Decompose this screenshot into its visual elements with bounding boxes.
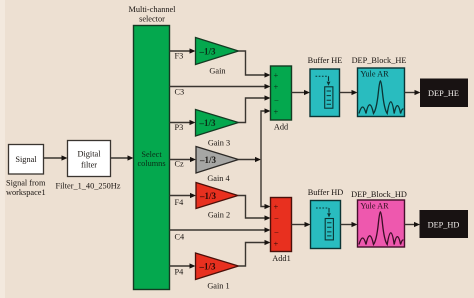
wire DEP_Block_HD to DEP_HD: [405, 222, 421, 227]
wire Gain 4 output to node A: [239, 157, 262, 162]
svg-text:P3: P3: [175, 123, 184, 132]
svg-text:–1/3: –1/3: [199, 262, 217, 272]
svg-text:DEP_HD: DEP_HD: [428, 220, 460, 229]
svg-text:C3: C3: [175, 88, 185, 97]
wire F4: [170, 193, 197, 198]
svg-text:Yule AR: Yule AR: [360, 202, 389, 211]
wire P4: [170, 263, 196, 268]
svg-text:–1/3: –1/3: [199, 191, 217, 201]
left edge light strip: [0, 0, 5, 298]
svg-text:Buffer HE: Buffer HE: [308, 56, 343, 65]
svg-text:Gain 4: Gain 4: [207, 174, 230, 183]
wire Cz: [170, 157, 197, 162]
svg-text:–1/3: –1/3: [199, 118, 217, 128]
svg-text:−: −: [274, 214, 279, 224]
block Digital filter: [68, 141, 111, 177]
gain G2 Gain 2 (F4): [196, 183, 238, 220]
svg-text:Yule AR: Yule AR: [360, 70, 389, 79]
svg-text:DEP_Block_HE: DEP_Block_HE: [352, 56, 407, 65]
svg-text:Buffer HD: Buffer HD: [308, 188, 344, 197]
block DEP_HD (output): [420, 211, 468, 238]
svg-text:+: +: [274, 70, 279, 80]
wire Digital filter to selector: [111, 155, 134, 160]
svg-text:DEP_HE: DEP_HE: [428, 89, 459, 98]
svg-text:DEP_Block_HD: DEP_Block_HD: [351, 190, 407, 199]
svg-text:−: −: [274, 227, 279, 237]
wire Buffer HD to DEP_Block_HD: [341, 222, 358, 227]
gain G4 Gain 4 (Cz): [196, 147, 239, 184]
svg-text:Gain: Gain: [209, 67, 226, 76]
wire Buffer HE to DEP_Block_HE: [340, 90, 358, 95]
svg-text:C4: C4: [175, 233, 186, 242]
svg-text:F4: F4: [175, 198, 185, 207]
gain G3 Gain 3 (P3): [196, 110, 239, 148]
svg-text:workspace1: workspace1: [6, 188, 46, 197]
svg-text:Add: Add: [274, 123, 289, 132]
svg-text:+: +: [274, 202, 279, 212]
wire C3: [170, 84, 271, 89]
block Buffer HE: [310, 69, 340, 117]
block DEP_HE (output): [421, 79, 468, 107]
wire node A to Add in4: [261, 108, 271, 159]
block U1 Multi-channel selector: [134, 26, 170, 290]
svg-text:F3: F3: [175, 52, 184, 61]
wire F3: [170, 48, 196, 53]
svg-text:Gain 3: Gain 3: [208, 139, 230, 148]
svg-text:Filter_1_40_250Hz: Filter_1_40_250Hz: [56, 182, 121, 191]
block DEP_Block_HD (Yule AR): [358, 200, 405, 247]
svg-text:−: −: [274, 96, 279, 106]
svg-text:Cz: Cz: [175, 160, 185, 169]
wire Add1 to Buffer HD: [292, 222, 311, 227]
wire node A to Add1 in1: [261, 160, 271, 210]
gain G1 Gain 1 (P4): [196, 253, 239, 291]
svg-text:selector: selector: [139, 15, 165, 24]
caption Multi-channel selector: [128, 5, 176, 24]
block Buffer HD: [311, 201, 341, 249]
block Add1 (sum): [271, 198, 292, 264]
svg-text:filter: filter: [81, 161, 97, 170]
svg-text:Signal: Signal: [15, 155, 37, 164]
wire Gain 2 output to Add1 in2: [238, 196, 271, 221]
gain G Gain (F3): [196, 38, 239, 76]
wire C4: [170, 227, 271, 232]
svg-text:Select: Select: [141, 150, 162, 159]
block DEP_Block_HE (Yule AR): [358, 68, 405, 117]
svg-text:Add1: Add1: [272, 254, 290, 263]
wire Gain 1 output to Add1 in4: [239, 240, 271, 266]
block Add (sum): [271, 66, 292, 132]
wire Add to Buffer HE: [292, 90, 311, 95]
svg-text:Gain 2: Gain 2: [208, 211, 230, 220]
wire P3: [170, 120, 196, 125]
svg-text:P4: P4: [175, 268, 185, 277]
svg-text:Signal from: Signal from: [6, 179, 46, 188]
svg-text:Gain 1: Gain 1: [207, 282, 229, 291]
svg-text:columns: columns: [137, 159, 165, 168]
caption Signal from workspace1: [6, 179, 46, 198]
svg-text:Digital: Digital: [77, 150, 101, 159]
wire Gain output to Add in1: [239, 51, 271, 78]
svg-text:–1/3: –1/3: [199, 155, 217, 165]
block Signal: [9, 145, 44, 175]
svg-text:+: +: [274, 239, 279, 249]
svg-text:Multi-channel: Multi-channel: [128, 5, 176, 14]
svg-text:–1/3: –1/3: [199, 47, 217, 57]
wire Gain 3 output to Add in3: [239, 95, 271, 122]
wire Signal to Digital filter: [44, 155, 68, 160]
svg-text:+: +: [274, 82, 279, 92]
wire DEP_Block_HE to DEP_HE: [405, 90, 421, 95]
svg-text:+: +: [274, 107, 279, 117]
